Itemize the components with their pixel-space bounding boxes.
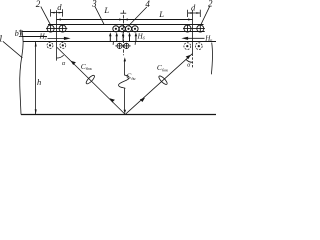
node label 3 leader — [95, 6, 104, 24]
wire frame bottom line — [23, 41, 216, 43]
node right support centerline — [192, 10, 194, 53]
node b dimension — [19, 30, 23, 37]
roller pair right bottom — [184, 43, 202, 50]
svg-text:Cбок: Cбок — [81, 62, 92, 71]
node L arrows — [57, 19, 193, 21]
svg-text:h: h — [37, 77, 41, 87]
wire torn right edge — [211, 43, 212, 75]
svg-text:d: d — [57, 2, 62, 12]
wire belt bottom line left — [22, 36, 47, 38]
svg-text:Cбок: Cбок — [157, 63, 168, 72]
wire torn left edge — [20, 31, 23, 114]
node H right force — [186, 37, 205, 39]
svg-text:L: L — [158, 9, 164, 19]
ground — [21, 114, 216, 116]
node label 1 leader — [3, 41, 23, 58]
node hatch ticks mini pair — [112, 42, 114, 45]
svg-text:1: 1 — [0, 34, 3, 44]
svg-text:Hб: Hб — [137, 33, 146, 41]
svg-text:Hл: Hл — [39, 32, 47, 40]
svg-text:4: 4 — [145, 0, 150, 9]
spring middle vertical — [119, 61, 130, 111]
svg-text:L: L — [103, 5, 109, 15]
svg-text:Hп: Hп — [204, 34, 212, 42]
roller row middle — [113, 26, 138, 32]
node H left force — [48, 37, 66, 39]
svg-text:3: 3 — [91, 0, 97, 8]
spring left diagonal — [57, 47, 125, 114]
svg-text:2: 2 — [208, 0, 213, 8]
wire band bottom line — [48, 24, 204, 26]
svg-text:b: b — [15, 29, 19, 38]
svg-text:α: α — [187, 63, 191, 69]
node angle alpha right — [186, 59, 193, 62]
wire band top line L-dim — [57, 19, 193, 21]
roller pair middle small — [115, 43, 130, 49]
wire frame top line — [22, 31, 205, 33]
node label 2 left leader — [41, 7, 51, 25]
node H bottom distributed arrows — [110, 35, 136, 42]
svg-text:2: 2 — [36, 0, 41, 9]
roller pair left bottom — [47, 42, 66, 48]
svg-text:α: α — [62, 61, 66, 67]
node d dimension left — [51, 9, 63, 16]
node angle alpha left — [57, 55, 64, 58]
node label 4 leader — [129, 7, 147, 25]
roller pair right top — [183, 25, 205, 32]
svg-text:d: d — [191, 2, 196, 12]
node middle centerline — [123, 10, 125, 55]
svg-text:Cдн: Cдн — [126, 72, 135, 81]
node label 2 right leader — [201, 7, 210, 25]
roller pair left top — [46, 25, 67, 32]
node left support centerline — [56, 10, 58, 60]
spring right diagonal — [125, 54, 192, 115]
node d dimension right — [188, 10, 201, 17]
node h dimension — [35, 42, 37, 115]
